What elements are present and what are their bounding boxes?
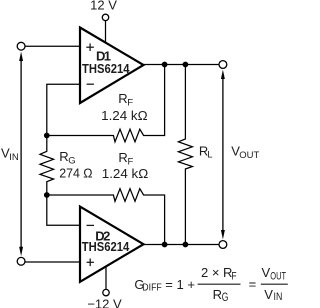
- wire +12V supply to D1: [105, 21, 107, 44]
- input terminal T1: [17, 42, 25, 50]
- svg-text:L: L: [207, 150, 212, 161]
- svg-text:1.24 kΩ: 1.24 kΩ: [101, 108, 148, 123]
- -12V supply terminal: [103, 289, 109, 295]
- VIN measurement arrow: [19, 52, 23, 257]
- label VOUT (right): [231, 143, 259, 161]
- svg-text:R: R: [59, 149, 68, 164]
- junction dot D2 out / RF riser: [162, 242, 168, 248]
- formula GDIFF = 1 + 2xRF/RG = VOUT/VIN: [134, 265, 287, 304]
- label RF (bottom): [118, 150, 133, 168]
- label RG: [59, 149, 75, 167]
- wire -12V supply to D2: [105, 267, 107, 290]
- wire D2 inverting input feedback: [47, 195, 80, 225]
- op-amp D1: [80, 28, 144, 104]
- svg-text:= 1 +: = 1 +: [165, 277, 195, 292]
- D1 inverting input marker -: [87, 83, 94, 85]
- svg-text:F: F: [231, 270, 236, 282]
- resistor RG: [40, 136, 54, 196]
- resistor RF (top): [47, 65, 165, 142]
- junction node A (RG / RF top / D1 inv): [44, 133, 50, 139]
- svg-text:R: R: [213, 287, 222, 302]
- svg-text:2 × R: 2 × R: [201, 265, 232, 280]
- svg-text:274 Ω: 274 Ω: [59, 166, 93, 181]
- op-amp D2: [80, 207, 144, 282]
- svg-text:1.24 kΩ: 1.24 kΩ: [102, 166, 149, 181]
- svg-text:THS6214: THS6214: [82, 239, 130, 254]
- wire D1 inverting input feedback stub: [47, 84, 80, 135]
- svg-text:V: V: [264, 287, 273, 302]
- svg-text:R: R: [118, 91, 127, 106]
- svg-text:THS6214: THS6214: [82, 61, 130, 76]
- D1 noninverting input marker +: [86, 43, 94, 51]
- label VIN (left): [1, 145, 19, 163]
- svg-text:DIFF: DIFF: [142, 283, 162, 294]
- svg-text:OUT: OUT: [270, 270, 286, 282]
- svg-text:OUT: OUT: [239, 150, 259, 161]
- junction dot D1 out / RF riser: [162, 62, 168, 68]
- resistor RF (bottom): [47, 189, 165, 245]
- svg-text:IN: IN: [9, 152, 19, 163]
- wire T2 to D2 noninverting input: [25, 261, 80, 263]
- label RF (top): [118, 91, 133, 109]
- wire D2 output: [144, 244, 219, 246]
- VOUT measurement arrow: [221, 70, 225, 240]
- output terminal T4: [219, 241, 227, 249]
- wire T1 to D1 noninverting input: [25, 45, 80, 47]
- D2 noninverting input marker +: [87, 259, 94, 267]
- D2 inverting input marker -: [87, 224, 95, 226]
- resistor RL: [178, 65, 192, 245]
- svg-text:G: G: [222, 292, 229, 304]
- junction dot D1 out / RL: [183, 62, 189, 68]
- junction dot D2 out / RL: [183, 242, 189, 248]
- svg-text:R: R: [118, 150, 127, 165]
- input terminal T2: [17, 257, 25, 265]
- svg-text:=: =: [249, 277, 257, 292]
- svg-text:V: V: [262, 265, 271, 280]
- svg-text:IN: IN: [274, 291, 283, 303]
- svg-text:−12 V: −12 V: [87, 296, 122, 308]
- svg-text:12 V: 12 V: [90, 0, 117, 13]
- +12V supply terminal: [102, 14, 108, 20]
- wire D1 output: [144, 64, 219, 66]
- output terminal T3: [219, 61, 227, 69]
- label RL: [199, 143, 213, 160]
- junction node B (RG / RF bottom / D2 inv): [44, 192, 50, 198]
